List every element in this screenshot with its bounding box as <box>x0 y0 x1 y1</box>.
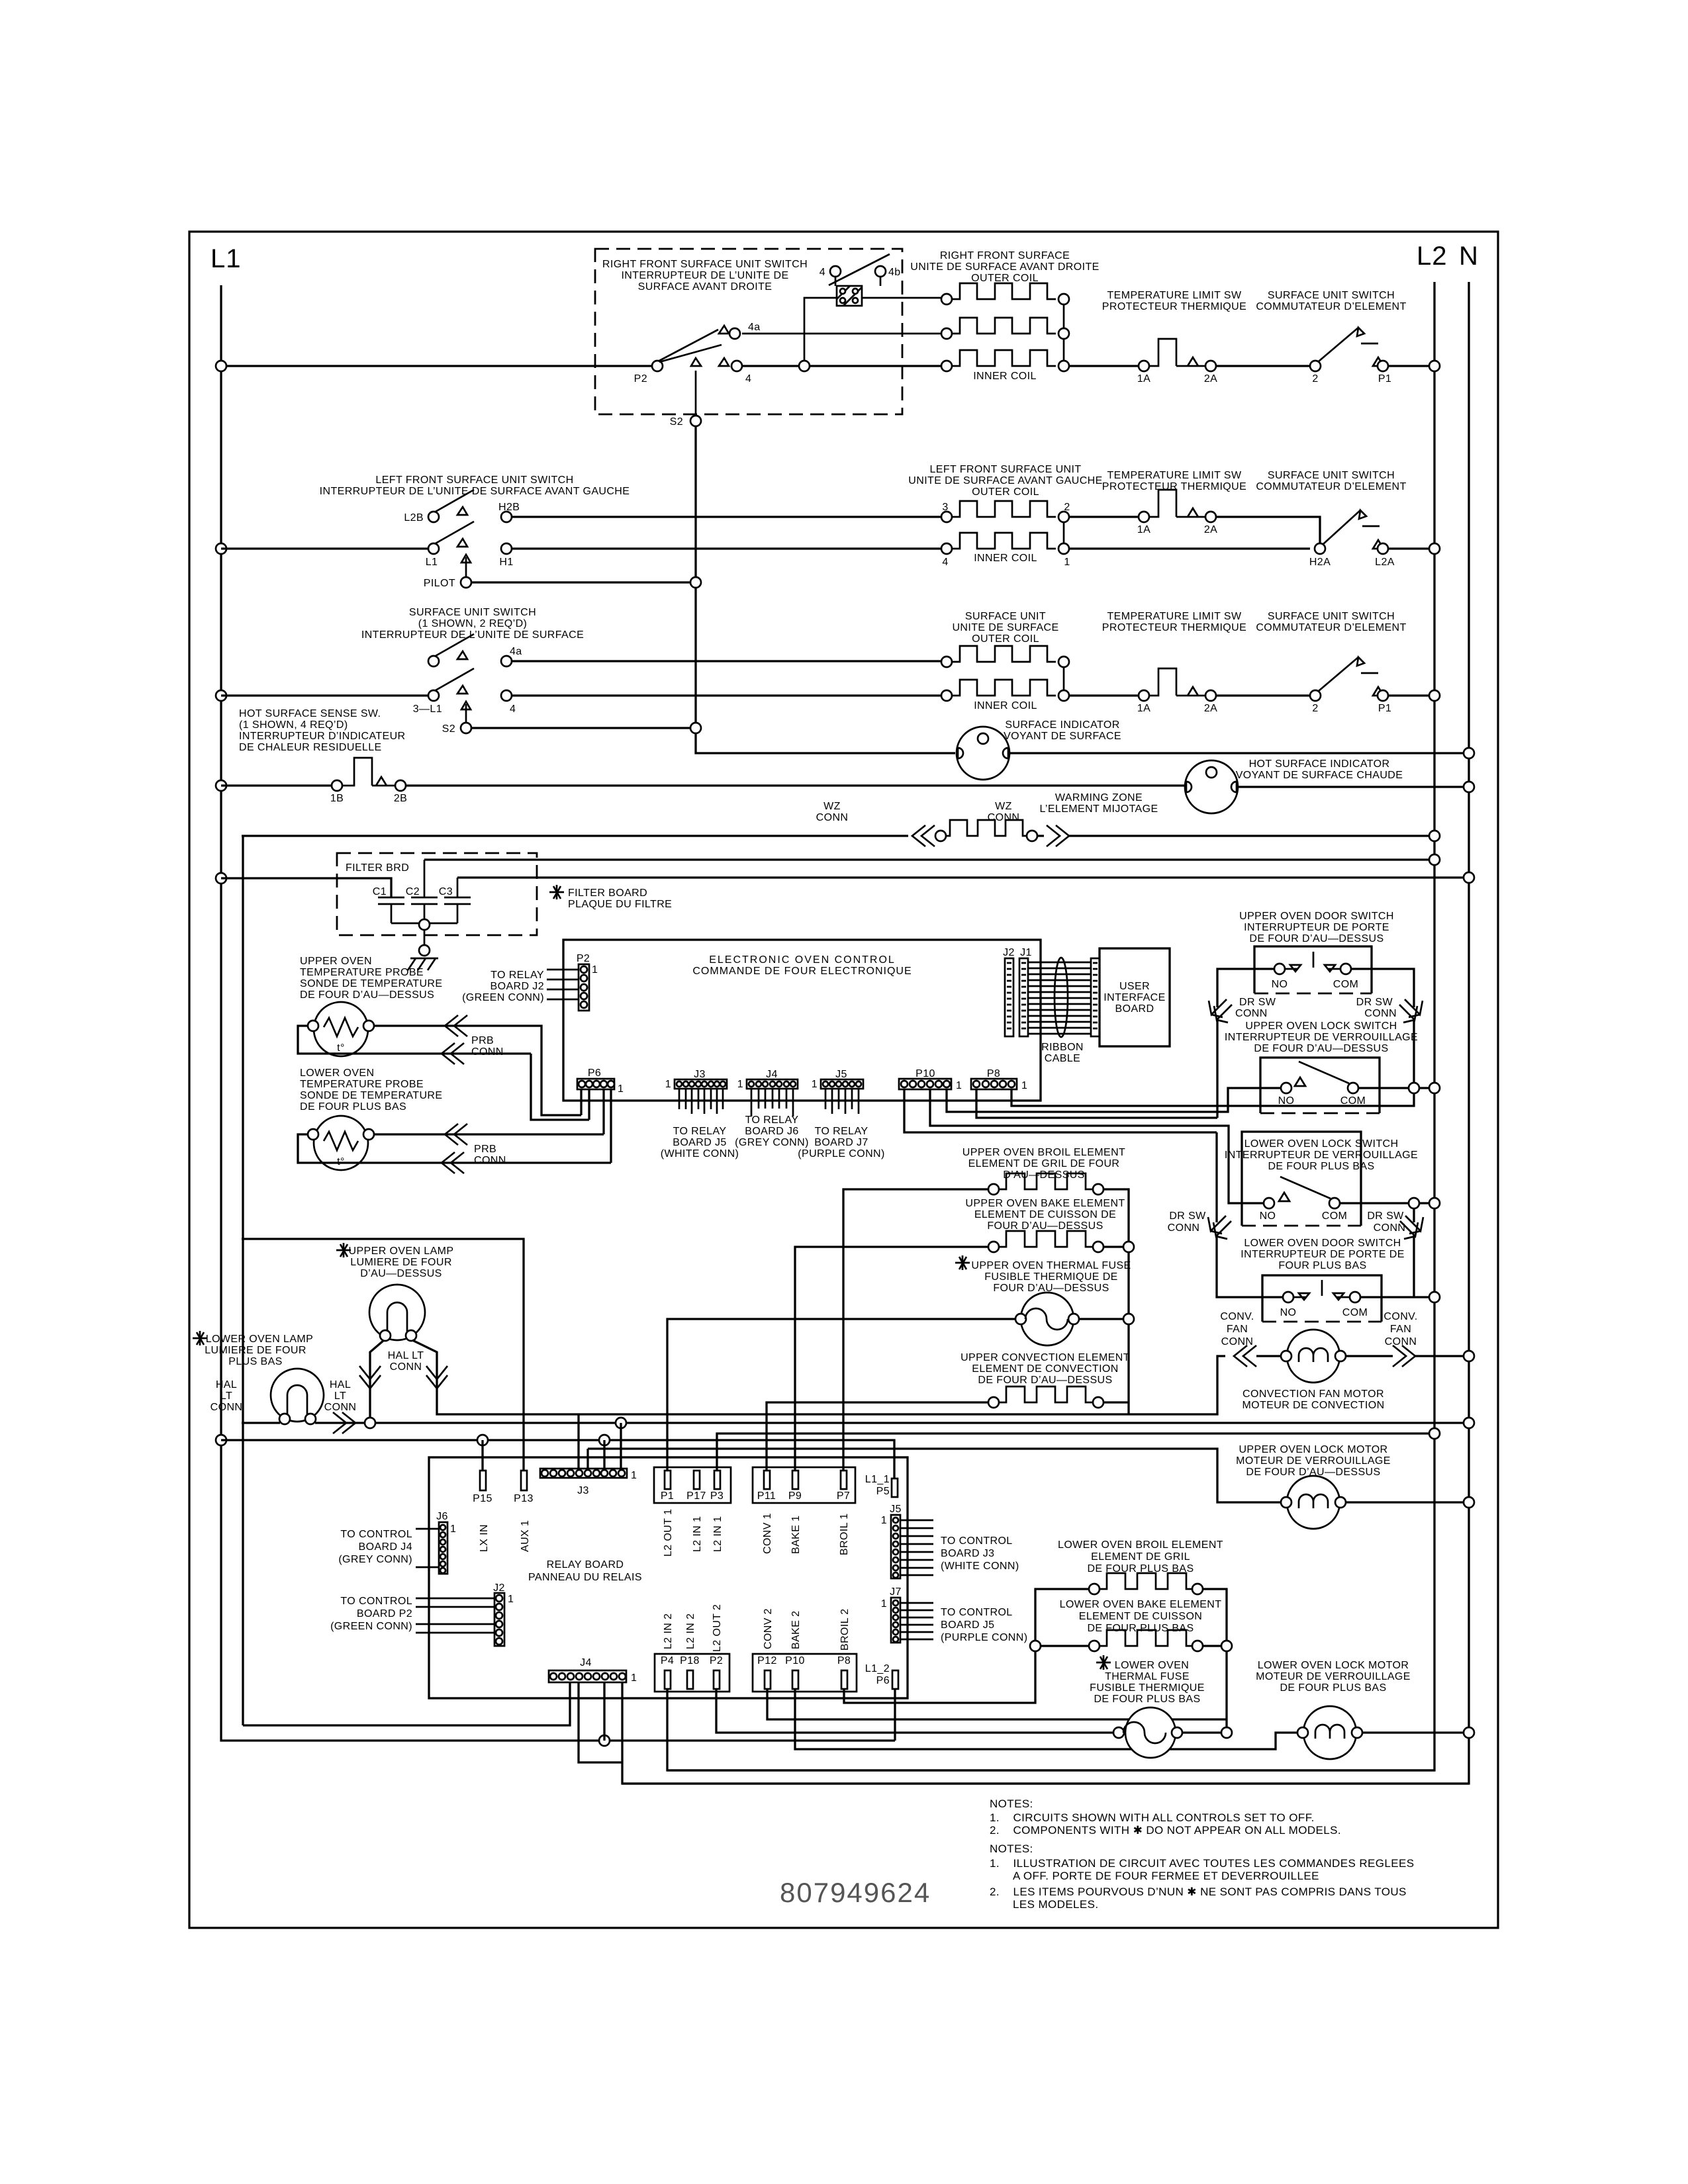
svg-text:FUSIBLE THERMIQUE DE: FUSIBLE THERMIQUE DE <box>984 1271 1118 1283</box>
svg-text:4b: 4b <box>888 267 901 278</box>
svg-text:SURFACE UNIT SWITCH: SURFACE UNIT SWITCH <box>1268 290 1395 301</box>
svg-text:SURFACE UNIT SWITCH: SURFACE UNIT SWITCH <box>409 607 536 618</box>
coil row1 inner <box>941 361 952 371</box>
wire upper lock motor right to N <box>1345 1501 1469 1503</box>
svg-text:(GREY CONN): (GREY CONN) <box>735 1137 809 1148</box>
lamp surface indicator <box>957 727 1009 780</box>
junction warming L2 <box>1429 831 1440 841</box>
svg-text:WZ: WZ <box>995 801 1012 812</box>
svg-text:J5: J5 <box>835 1069 847 1080</box>
svg-text:AUX 1: AUX 1 <box>520 1520 531 1552</box>
connector J2 ribbon strip <box>1005 958 1013 1036</box>
svg-text:BOARD J7: BOARD J7 <box>814 1137 868 1148</box>
switch arm L1 <box>436 522 474 547</box>
svg-text:C2: C2 <box>406 886 420 897</box>
connector user interface strip <box>1091 958 1100 1036</box>
svg-text:UPPER OVEN: UPPER OVEN <box>300 956 372 967</box>
svg-text:LOWER OVEN BROIL ELEMENT: LOWER OVEN BROIL ELEMENT <box>1058 1539 1223 1551</box>
svg-text:FAN: FAN <box>1227 1324 1248 1335</box>
svg-text:TEMPERATURE LIMIT SW: TEMPERATURE LIMIT SW <box>1107 290 1242 301</box>
svg-text:UNITE DE SURFACE AVANT DROITE: UNITE DE SURFACE AVANT DROITE <box>910 261 1099 273</box>
svg-text:TO CONTROL: TO CONTROL <box>941 1607 1013 1618</box>
junction S2 row3 <box>690 723 701 733</box>
svg-text:LOWER OVEN: LOWER OVEN <box>1115 1660 1189 1671</box>
junction lower fuse common <box>1221 1727 1232 1738</box>
svg-text:FAN: FAN <box>1390 1324 1411 1335</box>
svg-text:LUMIERE DE FOUR: LUMIERE DE FOUR <box>205 1345 306 1356</box>
svg-text:INNER COIL: INNER COIL <box>974 700 1037 711</box>
svg-text:4a: 4a <box>748 322 761 333</box>
wire P15 drop <box>481 1440 483 1471</box>
svg-text:1: 1 <box>881 1515 887 1526</box>
temperature limit switch row3 <box>1139 690 1149 701</box>
relay sub box P4 P18 P2 <box>655 1654 729 1692</box>
svg-text:t°: t° <box>337 1042 345 1054</box>
junction lamp line J3 pin10 <box>616 1418 626 1428</box>
wire 4b to block <box>835 277 880 286</box>
temperature probe upper <box>314 1002 368 1056</box>
junction lxin P15 <box>477 1435 488 1445</box>
junction L1 J4 pin7 <box>599 1735 610 1746</box>
svg-text:2: 2 <box>1064 502 1070 513</box>
relay sub box P12 P10 P8 <box>753 1654 857 1692</box>
svg-text:P1: P1 <box>661 1490 674 1502</box>
wire J3 pin5 drop <box>577 1414 579 1478</box>
svg-text:INTERRUPTEUR D’INDICATEUR: INTERRUPTEUR D’INDICATEUR <box>239 731 405 742</box>
wire S2 vertical <box>696 426 955 753</box>
junction lamp line upper lamp <box>365 1418 375 1428</box>
svg-text:UPPER OVEN BROIL ELEMENT: UPPER OVEN BROIL ELEMENT <box>962 1147 1125 1158</box>
pilot arrow <box>461 555 471 577</box>
svg-text:P2: P2 <box>634 373 647 385</box>
svg-text:COM: COM <box>1333 979 1359 990</box>
svg-text:LT: LT <box>334 1390 346 1402</box>
svg-text:2: 2 <box>1312 373 1318 385</box>
contact H1 <box>501 543 512 554</box>
svg-text:L2 OUT 1: L2 OUT 1 <box>663 1509 674 1557</box>
svg-text:LEFT FRONT SURFACE UNIT SWITCH: LEFT FRONT SURFACE UNIT SWITCH <box>375 475 573 486</box>
junction lower lock com <box>1409 1198 1419 1208</box>
contact 4 row3 <box>501 690 512 701</box>
coil row1 top <box>941 294 952 304</box>
svg-text:DR SW: DR SW <box>1239 997 1276 1008</box>
wire thermal fuse left P1 <box>667 1319 1016 1471</box>
convection fan motor <box>1287 1330 1340 1383</box>
svg-text:HAL LT: HAL LT <box>388 1350 424 1361</box>
svg-text:DE FOUR D’AU—DESSUS: DE FOUR D’AU—DESSUS <box>1249 933 1383 944</box>
wire fan left <box>1256 1355 1282 1357</box>
wire coil join row3 <box>1063 666 1065 691</box>
svg-text:OUTER COIL: OUTER COIL <box>972 633 1039 645</box>
pin P1 <box>665 1471 671 1489</box>
svg-text:P15: P15 <box>473 1493 492 1504</box>
junction row3 L2 <box>1429 690 1440 701</box>
svg-text:J3: J3 <box>577 1485 589 1496</box>
svg-text:LOWER OVEN LOCK SWITCH: LOWER OVEN LOCK SWITCH <box>1244 1138 1399 1150</box>
svg-text:P7: P7 <box>837 1490 850 1502</box>
svg-text:UNITE DE SURFACE AVANT GAUCHE: UNITE DE SURFACE AVANT GAUCHE <box>908 475 1102 486</box>
svg-text:COM: COM <box>1340 1095 1366 1107</box>
upper oven door switch box <box>1254 946 1372 993</box>
svg-text:D’AU—DESSUS: D’AU—DESSUS <box>1003 1169 1085 1181</box>
wire J7 relay stubs <box>900 1603 933 1639</box>
S2 terminal row3 <box>461 723 471 733</box>
svg-text:PROTECTEUR THERMIQUE: PROTECTEUR THERMIQUE <box>1102 481 1246 492</box>
svg-text:SURFACE AVANT DROITE: SURFACE AVANT DROITE <box>638 281 773 293</box>
upper oven lock motor <box>1287 1476 1340 1529</box>
svg-text:1B: 1B <box>330 793 344 804</box>
switch arm row3 lower <box>436 668 474 694</box>
svg-text:FUSIBLE THERMIQUE: FUSIBLE THERMIQUE <box>1090 1682 1205 1694</box>
connector chevron hal lower <box>333 1412 355 1433</box>
contact row3 upper <box>428 656 439 666</box>
svg-text:J2: J2 <box>1003 947 1015 958</box>
pins J3 eoc <box>679 1089 723 1114</box>
svg-text:MOTEUR DE VERROUILLAGE: MOTEUR DE VERROUILLAGE <box>1236 1455 1391 1467</box>
svg-text:2. COMPONENTS WITH ✱ DO NOT: 2. COMPONENTS WITH ✱ DO NOT APPEAR ON AL… <box>990 1824 1341 1837</box>
pin P11 <box>764 1471 770 1489</box>
svg-text:LOWER OVEN DOOR SWITCH: LOWER OVEN DOOR SWITCH <box>1244 1238 1401 1249</box>
asterisk filter board <box>549 885 564 899</box>
wire J4 pin3 to lamp rail <box>243 836 570 1725</box>
svg-text:LOWER OVEN BAKE ELEMENT: LOWER OVEN BAKE ELEMENT <box>1060 1599 1222 1610</box>
svg-text:TO RELAY: TO RELAY <box>815 1126 868 1137</box>
svg-text:CONN: CONN <box>988 812 1020 823</box>
lamp hot surface indicator <box>1185 760 1238 813</box>
svg-text:DE FOUR PLUS BAS: DE FOUR PLUS BAS <box>1268 1161 1374 1172</box>
svg-text:C3: C3 <box>439 886 453 897</box>
wire coil joins row1 <box>1063 304 1065 361</box>
svg-text:L2 IN 1: L2 IN 1 <box>712 1516 724 1552</box>
svg-text:DE FOUR D’AU—DESSUS: DE FOUR D’AU—DESSUS <box>978 1375 1112 1386</box>
lower oven lock motor <box>1303 1706 1356 1759</box>
wire row3 bus <box>221 694 1434 696</box>
wire L2 rail <box>667 282 1434 1770</box>
wire convection element right <box>1103 1401 1129 1403</box>
wire convection loop to fan <box>1129 1356 1225 1414</box>
junction L1 row3 <box>216 690 226 701</box>
wire lower lock motor right to N <box>1362 1731 1469 1733</box>
connector chevron prb upper b <box>442 1043 464 1064</box>
wire broil element right <box>1103 1189 1129 1414</box>
wire P8 to lower elements <box>844 1589 1090 1703</box>
junction L1 row4 <box>216 780 226 791</box>
junction J3 pin8 <box>599 1435 610 1445</box>
svg-text:DE FOUR D’AU—DESSUS: DE FOUR D’AU—DESSUS <box>300 989 434 1001</box>
svg-text:PILOT: PILOT <box>424 578 455 589</box>
svg-text:3: 3 <box>942 502 948 513</box>
wire P4 to L2 <box>667 1689 1434 1770</box>
junction block bus <box>799 361 810 371</box>
svg-text:4: 4 <box>942 557 948 568</box>
wire upper lock com to L2 <box>1358 1087 1434 1089</box>
wire probe upper right <box>373 1026 581 1115</box>
svg-text:INNER COIL: INNER COIL <box>974 553 1037 564</box>
svg-text:RIGHT FRONT SURFACE: RIGHT FRONT SURFACE <box>940 250 1070 261</box>
svg-text:J7: J7 <box>890 1586 902 1598</box>
wire upper lock motor left <box>588 1449 1282 1502</box>
junction L1 filter <box>216 873 226 884</box>
svg-text:LOWER OVEN: LOWER OVEN <box>300 1068 374 1079</box>
wire lower lock com to L2 <box>1340 1203 1434 1222</box>
svg-text:UPPER CONVECTION ELEMENT: UPPER CONVECTION ELEMENT <box>961 1352 1130 1363</box>
coil row2 inner <box>941 543 952 554</box>
svg-text:TO CONTROL: TO CONTROL <box>941 1535 1013 1547</box>
svg-text:TEMPERATURE PROBE: TEMPERATURE PROBE <box>300 967 424 978</box>
svg-text:MOTEUR DE CONVECTION: MOTEUR DE CONVECTION <box>1242 1400 1384 1411</box>
coil row3 inner <box>941 690 952 701</box>
contact 4b upper right <box>875 266 886 277</box>
svg-text:L1_2: L1_2 <box>865 1663 890 1674</box>
svg-text:DE FOUR PLUS BAS: DE FOUR PLUS BAS <box>1094 1694 1200 1705</box>
svg-text:CONV.: CONV. <box>1220 1311 1254 1322</box>
svg-text:VOYANT DE SURFACE: VOYANT DE SURFACE <box>1004 731 1121 742</box>
wire surface indicator to N <box>1009 752 1469 754</box>
svg-text:PROTECTEUR THERMIQUE: PROTECTEUR THERMIQUE <box>1102 622 1246 633</box>
wire row4 bus <box>221 786 1469 787</box>
svg-text:FILTER BRD: FILTER BRD <box>346 862 409 874</box>
svg-text:L1: L1 <box>426 557 438 568</box>
contact L1 row2 <box>428 543 439 554</box>
wire J3 pin8 drop <box>603 1440 605 1469</box>
svg-text:2B: 2B <box>394 793 407 804</box>
surface unit switch row3 <box>1310 690 1321 701</box>
surface unit switch row2 H2A <box>1315 543 1325 554</box>
svg-text:UPPER OVEN BAKE ELEMENT: UPPER OVEN BAKE ELEMENT <box>965 1198 1125 1209</box>
svg-text:BOARD P2: BOARD P2 <box>357 1608 412 1619</box>
svg-text:CONN: CONN <box>471 1046 504 1058</box>
svg-text:1A: 1A <box>1137 703 1150 714</box>
connector chevron dr sw lower right <box>1400 1216 1423 1239</box>
svg-text:OUTER COIL: OUTER COIL <box>971 273 1039 284</box>
svg-text:S2: S2 <box>442 723 455 735</box>
junction L1 lxin tap <box>216 1435 226 1445</box>
junction C2 L2 <box>1429 854 1440 865</box>
svg-text:N: N <box>1459 242 1479 271</box>
svg-text:(GREEN CONN): (GREEN CONN) <box>330 1621 412 1632</box>
svg-text:1: 1 <box>631 1470 637 1481</box>
svg-text:CONN: CONN <box>1385 1336 1417 1347</box>
svg-text:LOWER OVEN LAMP: LOWER OVEN LAMP <box>206 1334 313 1345</box>
relay sub box P1 P17 P3 <box>654 1467 731 1503</box>
switch arm row3 upper <box>436 634 474 659</box>
svg-text:DR SW: DR SW <box>1169 1210 1206 1222</box>
junction fan N <box>1464 1351 1474 1361</box>
svg-text:COMMUTATEUR D’ELEMENT: COMMUTATEUR D’ELEMENT <box>1256 622 1406 633</box>
svg-text:NOTES:: NOTES: <box>990 1843 1033 1855</box>
wire P10 to lock motor <box>795 1689 1297 1749</box>
connector J1 ribbon strip <box>1019 958 1028 1036</box>
connector chevron hal lt a <box>359 1366 381 1388</box>
wire convection element left P11 <box>767 1402 989 1471</box>
arrow row3 <box>461 702 471 723</box>
svg-text:P11: P11 <box>757 1490 776 1502</box>
svg-text:P1: P1 <box>1378 373 1391 385</box>
svg-text:USER: USER <box>1119 981 1150 992</box>
svg-text:FILTER BOARD: FILTER BOARD <box>568 887 647 899</box>
S2 drop row1 <box>691 358 701 416</box>
svg-text:1: 1 <box>1064 557 1070 568</box>
svg-text:TO CONTROL: TO CONTROL <box>340 1529 412 1540</box>
svg-text:J3: J3 <box>694 1069 706 1080</box>
svg-text:P13: P13 <box>514 1493 534 1504</box>
svg-text:PRB: PRB <box>474 1144 496 1155</box>
svg-text:P8: P8 <box>837 1655 851 1666</box>
svg-text:1A: 1A <box>1137 524 1150 535</box>
contact 4 upper right <box>830 266 841 277</box>
wire L1 tap line to P5 <box>221 1440 894 1479</box>
svg-text:P3: P3 <box>710 1490 724 1502</box>
svg-text:RIGHT FRONT SURFACE UNIT SWITC: RIGHT FRONT SURFACE UNIT SWITCH <box>602 259 808 270</box>
svg-text:BROIL 2: BROIL 2 <box>839 1608 851 1651</box>
lower oven lock switch <box>1264 1198 1274 1208</box>
svg-text:P9: P9 <box>788 1490 802 1502</box>
wire lower bake left <box>1035 1645 1090 1647</box>
svg-text:PLAQUE DU FILTRE: PLAQUE DU FILTRE <box>568 899 672 910</box>
relay sub box P11 P9 P7 <box>753 1467 855 1503</box>
svg-text:P12: P12 <box>757 1655 777 1666</box>
junction upper lock motor N <box>1464 1497 1474 1508</box>
svg-text:INTERRUPTEUR DE PORTE DE: INTERRUPTEUR DE PORTE DE <box>1241 1249 1405 1260</box>
svg-text:ELEMENT DE CONVECTION: ELEMENT DE CONVECTION <box>972 1363 1118 1375</box>
wire 4a line row3 <box>512 660 941 662</box>
connector J3 relay <box>540 1469 627 1478</box>
svg-text:INTERRUPTEUR DE PORTE: INTERRUPTEUR DE PORTE <box>1244 922 1389 933</box>
svg-text:TEMPERATURE LIMIT SW: TEMPERATURE LIMIT SW <box>1107 470 1242 481</box>
connector chevron conv fan right <box>1393 1345 1415 1367</box>
svg-text:DR SW: DR SW <box>1356 997 1393 1008</box>
svg-text:4: 4 <box>510 704 516 715</box>
svg-text:P2: P2 <box>710 1655 723 1666</box>
junction lower door L2 <box>1429 1292 1440 1302</box>
svg-text:COM: COM <box>1322 1210 1348 1222</box>
svg-text:CONN: CONN <box>211 1402 243 1413</box>
svg-text:(WHITE CONN): (WHITE CONN) <box>661 1148 739 1160</box>
svg-text:WZ: WZ <box>823 801 841 812</box>
svg-text:LT: LT <box>220 1390 232 1402</box>
svg-text:NOTES:: NOTES: <box>990 1797 1033 1810</box>
svg-text:(PURPLE CONN): (PURPLE CONN) <box>941 1632 1027 1643</box>
svg-text:1: 1 <box>450 1524 456 1535</box>
svg-text:CONN: CONN <box>474 1155 506 1166</box>
wire probe lower left <box>298 1089 611 1163</box>
svg-text:P6: P6 <box>876 1675 890 1686</box>
svg-text:INTERFACE: INTERFACE <box>1103 992 1165 1003</box>
svg-text:DE FOUR PLUS BAS: DE FOUR PLUS BAS <box>1087 1623 1194 1634</box>
asterisk lower thermal fuse <box>1096 1655 1111 1670</box>
svg-text:HOT SURFACE INDICATOR: HOT SURFACE INDICATOR <box>1249 758 1390 770</box>
wire P2 stubs <box>547 970 579 999</box>
junction lower bake left <box>1030 1641 1041 1651</box>
svg-text:1: 1 <box>1021 1080 1027 1091</box>
svg-text:PLUS BAS: PLUS BAS <box>228 1356 282 1367</box>
svg-text:H1: H1 <box>499 557 513 568</box>
relay board box <box>429 1457 908 1698</box>
wire P2 to fuse line <box>716 1689 1114 1733</box>
svg-text:BOARD J5: BOARD J5 <box>673 1137 726 1148</box>
svg-text:2A: 2A <box>1204 373 1217 385</box>
svg-text:S2: S2 <box>670 416 683 428</box>
svg-text:COMMANDE DE FOUR ELECTRONIQUE: COMMANDE DE FOUR ELECTRONIQUE <box>692 966 912 977</box>
connector chevron prb upper a <box>445 1015 467 1036</box>
svg-text:CONN: CONN <box>1168 1222 1200 1234</box>
svg-text:WARMING ZONE: WARMING ZONE <box>1055 792 1143 803</box>
svg-text:(GREY CONN): (GREY CONN) <box>338 1554 412 1565</box>
wire J2 stubs <box>416 1598 494 1633</box>
junction upper lock com <box>1409 1083 1419 1093</box>
svg-text:1: 1 <box>631 1672 637 1684</box>
svg-text:DR SW: DR SW <box>1367 1210 1404 1222</box>
wire P8 pin5 to lock com <box>1011 1089 1414 1106</box>
svg-text:(1 SHOWN, 2 REQ’D): (1 SHOWN, 2 REQ’D) <box>418 618 528 629</box>
svg-text:4: 4 <box>745 373 751 385</box>
asterisk upper thermal fuse <box>955 1255 970 1270</box>
junction indicator N <box>1464 748 1474 758</box>
svg-text:L2: L2 <box>1417 242 1448 271</box>
svg-text:VOYANT DE SURFACE CHAUDE: VOYANT DE SURFACE CHAUDE <box>1236 770 1403 781</box>
junction row1 L2 <box>1429 361 1440 371</box>
svg-text:UPPER OVEN LOCK SWITCH: UPPER OVEN LOCK SWITCH <box>1245 1021 1397 1032</box>
svg-text:A OFF. PORTE DE FOUR FERMEE ET: A OFF. PORTE DE FOUR FERMEE ET DEVERROUI… <box>1013 1870 1319 1882</box>
svg-text:CONN: CONN <box>816 812 849 823</box>
lower oven broil element <box>1089 1584 1100 1594</box>
svg-text:BOARD J6: BOARD J6 <box>745 1126 798 1137</box>
lower oven lock switch box <box>1242 1132 1361 1226</box>
svg-text:NO: NO <box>1278 1095 1295 1107</box>
svg-text:(PURPLE CONN): (PURPLE CONN) <box>798 1148 884 1160</box>
svg-text:TO RELAY: TO RELAY <box>673 1126 727 1137</box>
svg-text:P8: P8 <box>987 1068 1000 1079</box>
svg-text:HOT SURFACE SENSE SW.: HOT SURFACE SENSE SW. <box>239 708 381 719</box>
svg-text:3—L1: 3—L1 <box>413 704 442 715</box>
svg-text:1A: 1A <box>1137 373 1150 385</box>
svg-text:DE FOUR PLUS BAS: DE FOUR PLUS BAS <box>1280 1682 1386 1694</box>
svg-text:P17: P17 <box>686 1490 706 1502</box>
wire lower broil right <box>1202 1589 1227 1733</box>
svg-text:CONN: CONN <box>390 1361 422 1373</box>
svg-text:UPPER OVEN LOCK MOTOR: UPPER OVEN LOCK MOTOR <box>1239 1444 1387 1455</box>
svg-text:1: 1 <box>618 1083 624 1095</box>
svg-text:LOWER OVEN LOCK MOTOR: LOWER OVEN LOCK MOTOR <box>1258 1660 1409 1671</box>
svg-text:SURFACE UNIT: SURFACE UNIT <box>965 611 1046 622</box>
asterisk lower oven lamp <box>193 1331 207 1345</box>
svg-text:MOTEUR DE VERROUILLAGE: MOTEUR DE VERROUILLAGE <box>1256 1671 1411 1682</box>
switch S1 pivot P2 <box>652 361 663 371</box>
svg-text:SURFACE UNIT SWITCH: SURFACE UNIT SWITCH <box>1268 470 1395 481</box>
svg-text:2A: 2A <box>1204 524 1217 535</box>
svg-text:(GREEN CONN): (GREEN CONN) <box>462 992 544 1003</box>
svg-text:1: 1 <box>812 1079 818 1090</box>
right front surface unit switch dashed box <box>595 249 902 414</box>
pin P3 <box>714 1471 720 1489</box>
contact 4a row1 <box>719 326 941 334</box>
junction capacitor common <box>419 919 430 930</box>
svg-text:J1: J1 <box>1020 947 1032 958</box>
coil row1 mid <box>941 328 952 339</box>
pin P15 relay <box>480 1471 486 1490</box>
wire J4 pin4 <box>579 1682 622 1762</box>
junction row2 L2 <box>1429 543 1440 554</box>
svg-text:INTERRUPTEUR DE L’UNITE DE: INTERRUPTEUR DE L’UNITE DE <box>621 270 788 281</box>
svg-text:2: 2 <box>1312 703 1318 714</box>
wire J4 pin7 <box>603 1682 605 1741</box>
wire P10 pin6 to upper lock sw <box>947 1088 1281 1112</box>
svg-text:L1: L1 <box>211 244 242 273</box>
svg-text:CABLE: CABLE <box>1045 1053 1080 1064</box>
wire upper lamp left <box>370 1340 384 1423</box>
pins J4 eoc <box>751 1089 793 1116</box>
svg-text:(1 SHOWN, 4 REQ’D): (1 SHOWN, 4 REQ’D) <box>239 719 348 731</box>
